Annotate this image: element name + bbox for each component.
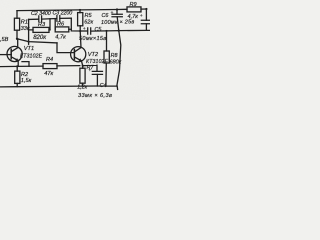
label R7 value 1,2к <box>77 65 94 91</box>
label VT1 КТ3102Е <box>20 46 43 59</box>
svg-text:R4: R4 <box>46 57 53 63</box>
node VT1 collector junction <box>16 38 18 40</box>
svg-text:+: + <box>83 27 86 32</box>
label R4 value 47к <box>44 57 53 77</box>
svg-text:VT2: VT2 <box>88 52 99 58</box>
svg-text:КТ3102Е: КТ3102Е <box>20 54 43 60</box>
svg-text:820к: 820к <box>33 35 47 41</box>
svg-text:1,5к: 1,5к <box>21 78 32 84</box>
transistor VT1 <box>0 39 22 67</box>
svg-text:R8: R8 <box>111 53 118 59</box>
wire ladder right vertical <box>71 18 80 31</box>
transistor VT2 <box>57 31 86 66</box>
svg-text:+: + <box>111 11 114 16</box>
capacitor C5 <box>80 28 91 34</box>
resistor R7 <box>80 66 85 86</box>
label R5 value 62к <box>84 13 93 25</box>
capacitor C6 <box>112 8 122 30</box>
svg-text:R9: R9 <box>130 2 137 8</box>
label C6 value 100мк×25в <box>101 11 135 26</box>
svg-text:47к: 47к <box>44 71 53 77</box>
node ladder left junction <box>28 41 30 43</box>
svg-text:,5В: ,5В <box>0 37 9 43</box>
svg-text:R5: R5 <box>85 13 93 19</box>
resistor R2 <box>15 66 20 86</box>
capacitor C7 <box>141 8 150 31</box>
node VT2 collector junction <box>79 30 81 32</box>
svg-text:С6: С6 <box>102 13 109 19</box>
svg-text:+: + <box>88 68 91 73</box>
svg-text:С2 3400: С2 3400 <box>31 11 51 17</box>
label R9 value 4,7к <box>128 2 139 20</box>
label R2 value 1,5к <box>21 72 32 84</box>
wire bottom ground rail <box>0 86 118 89</box>
label R3 value 820к <box>33 22 47 41</box>
label R1 value 33к <box>21 20 30 32</box>
svg-text:R3: R3 <box>38 22 46 28</box>
svg-text:R2: R2 <box>21 72 29 78</box>
wire ladder left vertical <box>28 19 30 44</box>
resistor R8 <box>104 31 109 86</box>
resistor R4 horizontal <box>43 64 57 69</box>
svg-text:4,7к: 4,7к <box>128 14 139 20</box>
label R6 value 4,7к <box>55 22 66 41</box>
wire output common line <box>91 29 150 32</box>
resistor R1 <box>14 11 19 39</box>
label VT2 КТ3102Е <box>86 52 109 65</box>
label C4 plus value 33мк×6,3в <box>78 68 112 98</box>
wire emitter feedback line <box>0 65 97 71</box>
resistor R6 <box>55 27 71 32</box>
capacitor C3 <box>57 16 60 22</box>
label C5 plus value <box>79 27 107 42</box>
svg-text:С3 2200: С3 2200 <box>53 10 73 16</box>
svg-text:+: + <box>140 14 143 19</box>
capacitor C4 <box>92 71 102 86</box>
svg-text:4,7к: 4,7к <box>55 35 66 41</box>
wire VT1 collector to VT2 base <box>17 39 57 43</box>
capacitor C2 <box>39 16 42 22</box>
svg-text:VT1: VT1 <box>24 46 34 52</box>
wire stub under VT1 <box>22 62 29 67</box>
wire node Y verticals <box>50 19 55 30</box>
wire ground return vertical <box>117 31 121 87</box>
svg-text:100мк × 25в: 100мк × 25в <box>101 19 135 26</box>
svg-text:62к: 62к <box>84 19 93 25</box>
resistor R9 <box>127 7 141 12</box>
wire ladder top <box>29 18 72 19</box>
svg-text:33мк × 6,3в: 33мк × 6,3в <box>78 93 112 99</box>
svg-text:R6: R6 <box>57 22 65 28</box>
svg-text:С5: С5 <box>95 27 103 33</box>
wire top supply rail <box>17 9 146 11</box>
resistor R5 vertical <box>78 9 83 31</box>
svg-text:50мк×15в: 50мк×15в <box>79 36 107 42</box>
resistor R3 <box>29 27 50 32</box>
svg-text:R1: R1 <box>21 20 28 26</box>
label R8 value 680к <box>110 53 122 65</box>
